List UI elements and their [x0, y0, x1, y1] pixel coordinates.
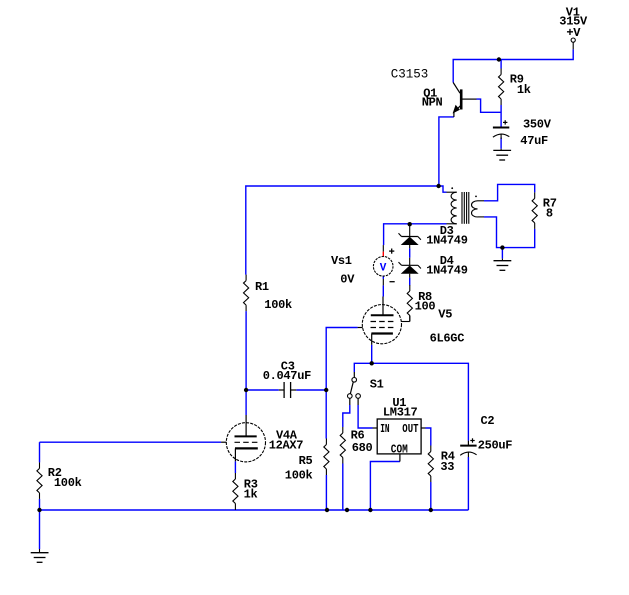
svg-text:LM317: LM317 [383, 406, 418, 420]
svg-text:6L6GC: 6L6GC [430, 332, 465, 346]
svg-text:COM: COM [391, 442, 408, 456]
svg-text:+V: +V [566, 26, 581, 40]
svg-text:R5: R5 [299, 454, 313, 468]
svg-text:100k: 100k [54, 476, 82, 490]
svg-text:1k: 1k [244, 487, 258, 501]
svg-text:OUT: OUT [402, 422, 418, 436]
svg-text:100: 100 [415, 299, 436, 313]
svg-text:680: 680 [352, 441, 373, 455]
svg-text:NPN: NPN [422, 95, 443, 109]
svg-text:0V: 0V [340, 273, 355, 287]
svg-text:100k: 100k [264, 298, 292, 312]
svg-text:1k: 1k [517, 83, 531, 97]
svg-text:1N4749: 1N4749 [426, 263, 468, 277]
svg-text:250uF: 250uF [478, 439, 513, 453]
svg-text:C2: C2 [481, 414, 495, 428]
svg-text:100k: 100k [285, 468, 313, 482]
svg-text:0.047uF: 0.047uF [263, 369, 311, 383]
svg-text:V5: V5 [438, 308, 452, 322]
svg-text:R1: R1 [255, 280, 269, 294]
svg-text:S1: S1 [370, 378, 384, 392]
svg-text:12AX7: 12AX7 [269, 439, 304, 453]
svg-text:8: 8 [546, 206, 553, 220]
svg-text:33: 33 [440, 460, 454, 474]
svg-text:47uF: 47uF [520, 134, 548, 148]
svg-text:V: V [380, 263, 387, 275]
svg-text:350V: 350V [523, 117, 552, 131]
svg-text:1N4749: 1N4749 [426, 233, 468, 247]
svg-text:C3153: C3153 [391, 67, 429, 81]
svg-text:Vs1: Vs1 [331, 254, 352, 268]
svg-text:IN: IN [380, 422, 389, 436]
